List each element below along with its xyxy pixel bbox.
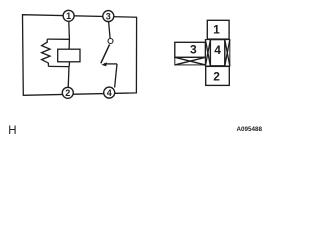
resistor R [42, 39, 50, 66]
svg-text:4: 4 [214, 43, 221, 57]
terminal 3 [103, 11, 114, 22]
wire switch bar [104, 63, 117, 65]
wire top rail resistor to coil branch [47, 38, 69, 40]
svg-text:A095488: A095488 [236, 126, 262, 133]
switch movable arm [101, 44, 110, 63]
svg-text:2: 2 [213, 70, 220, 84]
wire down to terminal 4 [115, 64, 117, 88]
terminal 1 [63, 10, 74, 21]
wire from terminal 3 down to fixed contact [109, 22, 111, 39]
wire coil bottom stub [68, 62, 70, 67]
wire down to terminal 2 [67, 67, 70, 88]
svg-text:1: 1 [213, 23, 220, 37]
switch arm arrowhead [101, 62, 107, 66]
switch fixed contact (small circle) [108, 39, 113, 44]
wire bottom rail [48, 65, 69, 67]
svg-text:1: 1 [66, 11, 71, 21]
wire from terminal 1 down to coil [68, 21, 71, 49]
svg-text:2: 2 [65, 88, 70, 98]
connector cavity 3 [175, 42, 206, 57]
svg-text:3: 3 [106, 11, 111, 21]
svg-text:4: 4 [107, 88, 112, 98]
connector slot right of 4 [225, 40, 230, 66]
connector slot below 3 [175, 57, 206, 65]
connector cavity 4 [210, 40, 224, 66]
terminal 4 [104, 87, 115, 98]
terminal 2 [62, 87, 73, 98]
connector slot left of 4 [205, 40, 210, 66]
svg-text:H: H [8, 125, 16, 137]
svg-text:3: 3 [190, 43, 197, 57]
relay coil (rectangle) [58, 49, 80, 62]
relay outline box [23, 15, 137, 96]
connector cavity 2 [206, 66, 230, 85]
connector cavity 1 [207, 20, 229, 39]
